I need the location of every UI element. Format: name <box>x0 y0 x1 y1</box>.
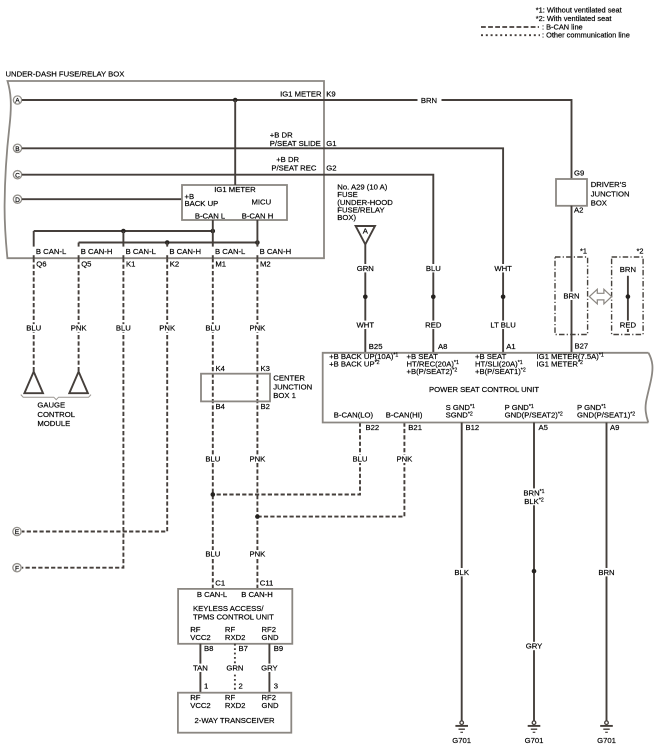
keyless access/TPMS control unit labels <box>190 590 279 642</box>
svg-text:G1: G1 <box>326 139 336 148</box>
svg-text:IG1 METER*2: IG1 METER*2 <box>537 359 583 368</box>
svg-text:B27: B27 <box>575 341 589 350</box>
PSCU pin B21 function label <box>386 411 423 420</box>
svg-text:A9: A9 <box>610 423 619 432</box>
svg-text:BRN: BRN <box>598 568 614 577</box>
junction B-CAN L bus at K1 <box>121 229 126 234</box>
svg-text:B7: B7 <box>239 644 248 653</box>
wire K2 PNK to connector E <box>22 258 177 531</box>
MICU block outline <box>182 185 287 220</box>
wire BRN/RED in *2 box <box>618 265 638 332</box>
svg-text:WHT: WHT <box>357 321 375 330</box>
svg-text:MODULE: MODULE <box>37 419 70 428</box>
svg-text:IG1 METER: IG1 METER <box>280 89 322 98</box>
svg-text:G2: G2 <box>326 163 336 172</box>
under-dash fuse/relay box label <box>6 69 125 78</box>
gauge control module connector triangle Q5 <box>69 372 88 394</box>
svg-text:PNK: PNK <box>249 550 266 559</box>
PSCU pin A1 function label <box>475 352 526 376</box>
svg-text:BLU: BLU <box>426 264 441 273</box>
wire A IG1 METER to driver junction box G9 <box>22 95 572 179</box>
svg-text:DRIVER'S: DRIVER'S <box>591 180 627 189</box>
svg-text:MICU: MICU <box>252 197 272 206</box>
svg-text:B21: B21 <box>408 423 422 432</box>
splice BRN/RED *2 <box>626 294 631 299</box>
legend B-CAN line sample <box>481 22 583 31</box>
svg-text:TAN: TAN <box>193 664 208 673</box>
pin C11 label <box>260 579 274 588</box>
svg-text:P/SEAT REC: P/SEAT REC <box>271 163 316 172</box>
svg-text:B12: B12 <box>466 423 480 432</box>
svg-text:A8: A8 <box>438 342 447 351</box>
2-way transceiver labels <box>190 693 279 725</box>
variant box *2 with ventilated seat <box>612 246 644 334</box>
wire A9 BRN to ground <box>596 423 617 722</box>
svg-text:GND(P/SEAT2)*2: GND(P/SEAT2)*2 <box>505 411 563 420</box>
center junction box 1 label <box>273 374 312 401</box>
svg-text:G701: G701 <box>597 736 616 745</box>
center junction box pins K4 K3 B4 B2 <box>216 364 270 411</box>
svg-text:C11: C11 <box>260 579 274 588</box>
svg-text:RED: RED <box>425 321 442 330</box>
svg-text:A: A <box>363 227 369 236</box>
svg-text:B CAN-H: B CAN-H <box>260 247 292 256</box>
svg-text:+B(P/SEAT2)*2: +B(P/SEAT2)*2 <box>407 367 458 376</box>
keyless access/TPMS control unit outline <box>178 589 292 644</box>
splice BLU/RED <box>431 295 436 300</box>
svg-text:B8: B8 <box>204 644 213 653</box>
svg-text:POWER SEAT CONTROL UNIT: POWER SEAT CONTROL UNIT <box>429 385 539 394</box>
wire B-CAN L bus <box>34 230 213 232</box>
svg-text:JUNCTION: JUNCTION <box>591 190 630 199</box>
svg-text:Q6: Q6 <box>36 260 46 269</box>
variant box *1 without ventilated seat <box>555 246 588 334</box>
fuse connector triangle A <box>356 226 375 244</box>
splice on wire A5 <box>532 569 537 574</box>
svg-text:*1: *1 <box>580 246 587 255</box>
svg-text:A1: A1 <box>506 342 515 351</box>
svg-text:VCC2: VCC2 <box>190 701 211 710</box>
svg-text:BLK: BLK <box>454 568 469 577</box>
svg-text:B CAN-L: B CAN-L <box>215 247 246 256</box>
svg-text:RXD2: RXD2 <box>225 701 246 710</box>
svg-text:B CAN-H: B CAN-H <box>81 247 113 256</box>
svg-text:B-CAN(LO): B-CAN(LO) <box>334 411 374 420</box>
svg-text:PNK: PNK <box>249 455 266 464</box>
svg-text:A2: A2 <box>574 206 583 215</box>
wire M2 PNK to keyless C11 <box>247 258 267 589</box>
wire stub M2 from MICU B-CAN H <box>256 220 258 258</box>
connector E <box>13 527 21 536</box>
wire D to MICU +B BACK UP <box>22 198 182 200</box>
pin K1 B CAN-L <box>119 247 157 269</box>
svg-text:G701: G701 <box>452 736 471 745</box>
junction B-CAN H bus at M2 <box>255 240 260 245</box>
svg-text:2-WAY TRANSCEIVER: 2-WAY TRANSCEIVER <box>194 716 274 725</box>
PSCU bottom pin designators <box>366 423 620 432</box>
splice GRN/WHT <box>363 295 368 300</box>
svg-text:TPMS CONTROL UNIT: TPMS CONTROL UNIT <box>193 613 274 622</box>
svg-text:B CAN-H: B CAN-H <box>241 590 273 599</box>
svg-text:B-CAN L: B-CAN L <box>195 211 226 220</box>
svg-text:B-CAN(HI): B-CAN(HI) <box>386 411 423 420</box>
PSCU pin B27 function label <box>537 352 604 368</box>
wire B +B DR P/SEAT SLIDE to pin A1 <box>22 148 503 352</box>
MICU block labels <box>185 185 274 220</box>
ground G701 for A5 <box>525 721 544 745</box>
svg-text:B: B <box>15 146 20 153</box>
pin C1 label <box>215 579 225 588</box>
wire B7 GRN RF RXD2 (communication line) <box>224 644 248 693</box>
junction B-CAN H bus at K2 <box>165 240 170 245</box>
pin M1 B CAN-L <box>208 247 246 269</box>
svg-text:B2: B2 <box>261 402 270 411</box>
svg-text:BLU: BLU <box>26 324 41 333</box>
svg-text:CENTER: CENTER <box>273 374 305 383</box>
legend other communication line sample <box>481 31 630 40</box>
driver's junction box pins G9 A2 <box>574 168 584 214</box>
svg-text:K9: K9 <box>326 89 335 98</box>
svg-text:GRY: GRY <box>526 642 543 651</box>
svg-text:D: D <box>15 197 20 204</box>
wire A2 to B27 BRN <box>571 206 573 353</box>
wire B8 TAN RF VCC2 <box>191 644 214 693</box>
svg-text:BLU: BLU <box>205 550 220 559</box>
svg-text:2: 2 <box>239 682 243 691</box>
junction M1/B22 <box>211 492 216 497</box>
wire stub M1 from MICU B-CAN L <box>212 220 214 258</box>
svg-text:IG1 METER: IG1 METER <box>214 185 256 194</box>
svg-text:BLU: BLU <box>205 324 220 333</box>
PSCU pin A9 function label <box>577 403 635 419</box>
svg-text:Q5: Q5 <box>81 260 91 269</box>
svg-text:G9: G9 <box>574 168 584 177</box>
pin Q5 B CAN-H <box>74 247 112 269</box>
svg-text:BLU: BLU <box>353 455 368 464</box>
wire M1 BLU to keyless C1 <box>203 258 222 589</box>
svg-text:A: A <box>15 98 20 105</box>
svg-text:B CAN-L: B CAN-L <box>197 590 228 599</box>
svg-text:BLU: BLU <box>116 324 131 333</box>
PSCU pin B25 designator <box>369 342 383 351</box>
wire B12 BLK to ground <box>452 423 471 722</box>
junction B-CAN L bus at M1 <box>211 229 216 234</box>
svg-text:BRN: BRN <box>421 96 437 105</box>
svg-text:B22: B22 <box>366 423 380 432</box>
wire IG1 METER from MICU to wire A <box>234 100 236 185</box>
svg-text:GND: GND <box>262 633 280 642</box>
svg-text:RED: RED <box>620 321 637 330</box>
wire stub Q5 <box>78 243 80 259</box>
svg-text:BOX): BOX) <box>337 213 356 222</box>
svg-text:GAUGE: GAUGE <box>37 401 65 410</box>
svg-text:B CAN-H: B CAN-H <box>169 247 201 256</box>
svg-text:B CAN-L: B CAN-L <box>126 247 157 256</box>
svg-text:K4: K4 <box>216 364 226 373</box>
svg-text:B25: B25 <box>369 342 383 351</box>
legend note *2 with ventilated seat <box>536 14 612 23</box>
PSCU pin B22 function label <box>334 411 374 420</box>
svg-text:RXD2: RXD2 <box>225 633 246 642</box>
svg-text:G701: G701 <box>525 736 544 745</box>
svg-text:GND: GND <box>262 701 280 710</box>
svg-text:B-CAN H: B-CAN H <box>242 211 274 220</box>
svg-text:M2: M2 <box>260 260 271 269</box>
svg-text:A5: A5 <box>539 423 548 432</box>
variant equivalence arrow <box>589 289 611 304</box>
gauge control module label <box>37 401 75 428</box>
driver's junction box outline <box>556 179 587 206</box>
power seat control unit title <box>429 385 539 394</box>
PSCU pin B12 function label <box>446 403 475 419</box>
svg-text:C1: C1 <box>215 579 225 588</box>
legend note *1 without ventilated seat <box>536 6 622 15</box>
PSCU pin A5 function label <box>505 403 563 419</box>
svg-text:M1: M1 <box>215 260 226 269</box>
svg-text:B4: B4 <box>216 402 226 411</box>
wire B22 B-CAN(LO) branch <box>213 423 370 495</box>
pin M2 B CAN-H <box>253 247 291 269</box>
svg-text:BOX 1: BOX 1 <box>273 391 296 400</box>
wire Q6 BLU to gauge control module <box>24 258 43 371</box>
power seat control unit outline <box>323 353 653 423</box>
label IG1 METER / pin K9 <box>280 89 336 98</box>
svg-text:F: F <box>15 565 19 572</box>
svg-text:K3: K3 <box>261 364 270 373</box>
svg-text:E: E <box>15 529 20 536</box>
svg-text:C: C <box>15 172 20 179</box>
connector A <box>13 96 21 105</box>
connector D <box>13 195 21 204</box>
svg-text:WHT: WHT <box>494 264 512 273</box>
gauge control module connector triangle Q6 <box>24 372 43 394</box>
svg-text:BRN: BRN <box>563 292 579 301</box>
PSCU pin B27 designator <box>575 341 589 350</box>
svg-text:UNDER-DASH FUSE/RELAY BOX: UNDER-DASH FUSE/RELAY BOX <box>6 69 125 78</box>
ground G701 for B12 <box>452 721 471 745</box>
PSCU pin B25 function label <box>329 352 398 368</box>
svg-text:PNK: PNK <box>396 455 413 464</box>
svg-text:LT BLU: LT BLU <box>490 321 515 330</box>
svg-text:GND(P/SEAT1)*2: GND(P/SEAT1)*2 <box>577 411 635 420</box>
junction on wire A at IG1 meter branch <box>233 98 238 103</box>
under-dash fuse/relay box outline <box>5 81 324 258</box>
svg-text:K2: K2 <box>170 260 179 269</box>
svg-text:+B(P/SEAT1)*2: +B(P/SEAT1)*2 <box>475 367 526 376</box>
wire B-CAN H bus <box>79 242 258 244</box>
svg-text:GRN: GRN <box>226 664 243 673</box>
wire B9 GRY RF2 GND <box>259 644 283 693</box>
PSCU pin A8 designator <box>438 342 447 351</box>
svg-text:: Other communication line: : Other communication line <box>542 31 630 40</box>
svg-text:B CAN-L: B CAN-L <box>36 247 67 256</box>
PSCU pin A1 designator <box>506 342 515 351</box>
svg-text:PNK: PNK <box>71 324 88 333</box>
svg-text:BOX: BOX <box>591 199 607 208</box>
svg-text:BACK UP: BACK UP <box>185 199 219 208</box>
splice WHT/LT BLU <box>501 295 506 300</box>
driver's junction box label <box>591 180 630 208</box>
wire A1 colors WHT/LT BLU <box>489 264 517 330</box>
svg-text:PNK: PNK <box>249 324 266 333</box>
connector C <box>13 171 21 180</box>
svg-text:BRN: BRN <box>620 265 636 274</box>
svg-text:JUNCTION: JUNCTION <box>273 382 312 391</box>
svg-text:3: 3 <box>274 682 278 691</box>
svg-text:GRN: GRN <box>357 264 374 273</box>
connector F <box>13 564 21 573</box>
wire stub K2 <box>166 243 168 259</box>
PSCU pin A8 function label <box>407 352 459 376</box>
wire A5 BRN/BLK to GRY ground <box>522 423 547 722</box>
pin Q6 B CAN-L <box>29 247 67 269</box>
center junction box 1 outline <box>201 374 270 402</box>
wire Q5 PNK to gauge control module <box>69 258 89 371</box>
pin K2 B CAN-H <box>163 247 201 269</box>
wire stub K1 <box>122 231 124 258</box>
wire C +B DR P/SEAT REC to pin A8 <box>22 175 433 353</box>
svg-text:K1: K1 <box>126 260 135 269</box>
svg-text:1: 1 <box>204 682 208 691</box>
wire B21 B-CAN(HI) branch <box>257 423 414 517</box>
gauge control module bracket <box>21 395 91 400</box>
svg-text:PNK: PNK <box>159 324 176 333</box>
ground G701 for A9 <box>597 721 616 745</box>
wire color BRN in *1 box <box>561 292 582 301</box>
wire fuse to B25 GRN/WHT <box>354 244 376 352</box>
svg-text:*2: *2 <box>637 246 644 255</box>
label +B DR P/SEAT SLIDE / pin G1 <box>270 131 337 148</box>
wire A8 colors BLU/RED <box>423 264 443 330</box>
svg-text:GRY: GRY <box>261 664 278 673</box>
2-way transceiver outline <box>178 693 291 733</box>
svg-text:P/SEAT SLIDE: P/SEAT SLIDE <box>270 139 321 148</box>
label +B DR P/SEAT REC / pin G2 <box>271 155 336 172</box>
svg-text:CONTROL: CONTROL <box>37 410 75 419</box>
connector B <box>13 144 21 153</box>
wire K1 BLU to connector F <box>22 258 133 568</box>
wire stub Q6 <box>33 231 35 258</box>
svg-text:+B BACK UP*2: +B BACK UP*2 <box>329 359 380 368</box>
svg-text:VCC2: VCC2 <box>190 633 211 642</box>
fuse No. A29 label <box>337 183 393 222</box>
svg-text:BLU: BLU <box>205 455 220 464</box>
junction M2/B21 <box>255 514 260 519</box>
svg-text:B9: B9 <box>274 644 283 653</box>
